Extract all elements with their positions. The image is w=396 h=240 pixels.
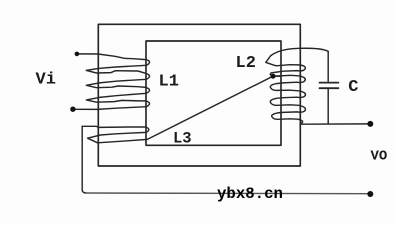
wire L2 top to capacitor (arc) [271, 48, 328, 55]
core outer rectangle [98, 24, 300, 166]
wire L3 tap diagonal [147, 76, 273, 139]
inductor L1 [86, 54, 149, 109]
svg-text:Vi: Vi [36, 71, 56, 90]
svg-text:C: C [348, 78, 358, 97]
svg-text:VO: VO [371, 149, 388, 165]
node V0 top terminal [367, 121, 373, 127]
node tap junction on L2 [271, 74, 276, 79]
capacitor C plates [320, 83, 339, 89]
svg-text:ybx8.cn: ybx8.cn [217, 185, 283, 203]
wire Vi top lead [78, 53, 98, 55]
inductor L2 [266, 56, 306, 125]
capacitor C bottom lead [327, 89, 329, 124]
core inner rectangle [146, 41, 281, 145]
wire left riser to bottom rail [82, 126, 86, 193]
node V0 bottom terminal [367, 191, 373, 197]
wire tap stub to core [273, 75, 281, 77]
wire bottom rail [86, 192, 367, 195]
node Vi top terminal [75, 52, 80, 57]
svg-text:L1: L1 [159, 73, 179, 92]
capacitor C top lead [327, 51, 329, 81]
svg-text:L2: L2 [236, 54, 256, 73]
inductor L3 (single turn) [82, 126, 149, 143]
wire Vi bottom lead [75, 108, 98, 110]
wire L2 bottom to output [300, 123, 367, 125]
svg-text:L3: L3 [173, 129, 192, 147]
node Vi bottom terminal [70, 107, 75, 112]
